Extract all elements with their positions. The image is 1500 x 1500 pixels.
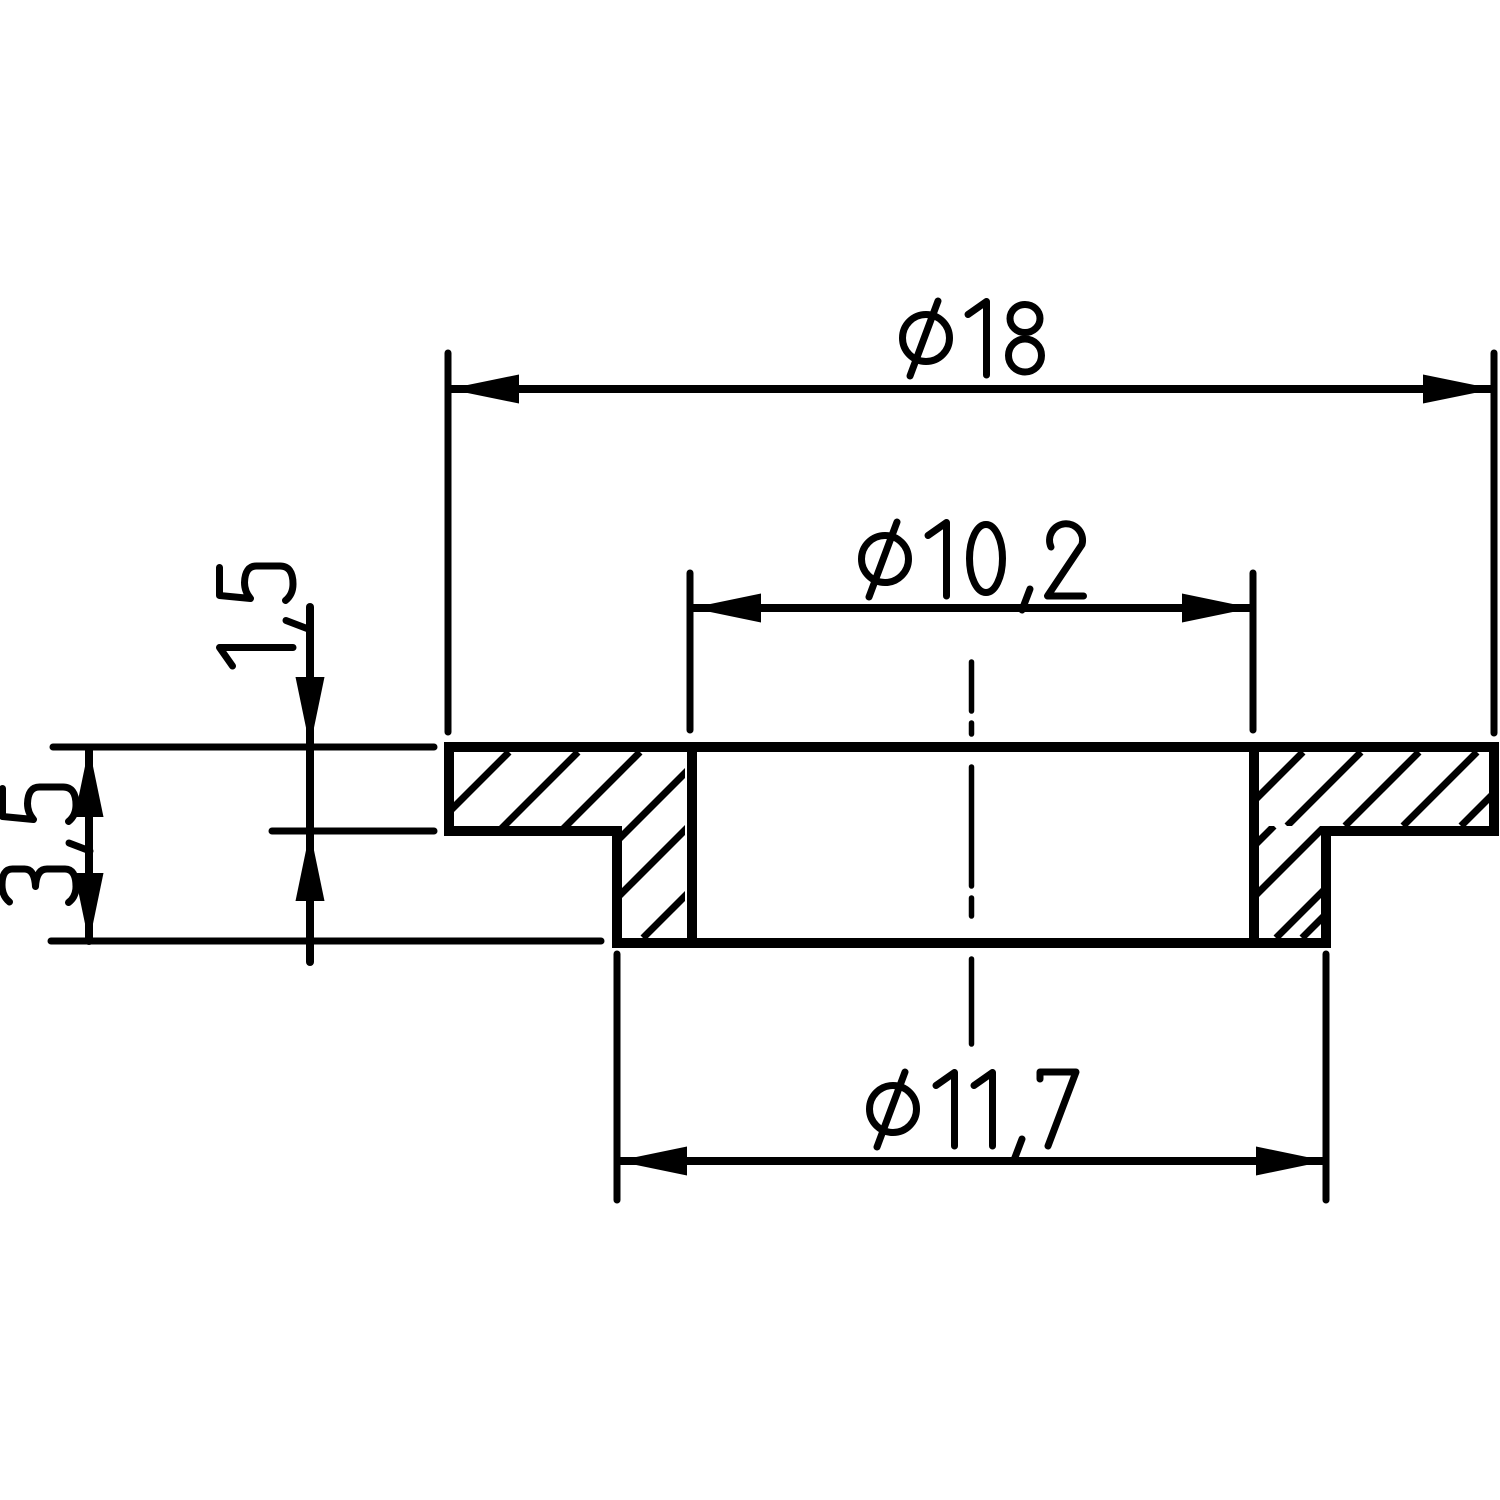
part outline section profile: [444, 747, 1499, 943]
extension line left top surface: [53, 744, 434, 751]
text 1,5 rotated: [220, 566, 308, 666]
arrow right of dim 11,7: [1256, 1147, 1326, 1176]
text diameter 18: [903, 301, 1042, 376]
arrow lower of dim 1,5 pointing up: [296, 831, 325, 901]
arrow left of dim 18: [448, 375, 519, 404]
centerline vertical dash-dot: [969, 662, 975, 1044]
bore right wall: [1249, 743, 1259, 947]
arrow right of dim 10,2: [1182, 594, 1252, 623]
hatching left cut region: [323, 752, 829, 938]
arrow right of dim 18: [1423, 375, 1494, 404]
extension line left dim 10,2: [687, 573, 694, 730]
extension line left hub bottom: [51, 938, 601, 945]
dimension line diameter 11,7: [620, 1157, 1323, 1165]
dimension line 1,5 vertical: [306, 607, 314, 962]
dimension line diameter 10,2: [693, 604, 1250, 612]
extension line left dim 18: [445, 353, 452, 732]
dimension line 3,5 vertical: [85, 749, 93, 941]
text diameter 10,2: [862, 522, 1084, 610]
extension line left flange bottom: [272, 828, 434, 835]
arrow left of dim 11,7: [617, 1147, 687, 1176]
bore left wall: [687, 743, 697, 947]
extension line right dim 10,2: [1250, 573, 1257, 730]
hatching right hub cut region: [1162, 826, 1414, 938]
arrow top of dim 3,5: [75, 747, 104, 817]
arrow bottom of dim 3,5: [75, 873, 104, 943]
dimension line diameter 18: [451, 385, 1491, 393]
extension line right dim 11,7: [1323, 954, 1330, 1200]
extension line left dim 11,7: [614, 954, 621, 1200]
text 3,5 rotated: [2, 787, 90, 903]
text diameter 11,7: [870, 1072, 1077, 1160]
hatching right flange cut region: [1229, 752, 1500, 826]
extension line right dim 18: [1491, 353, 1498, 733]
arrow left of dim 10,2: [691, 594, 761, 623]
arrow upper of dim 1,5 pointing down: [296, 677, 325, 747]
